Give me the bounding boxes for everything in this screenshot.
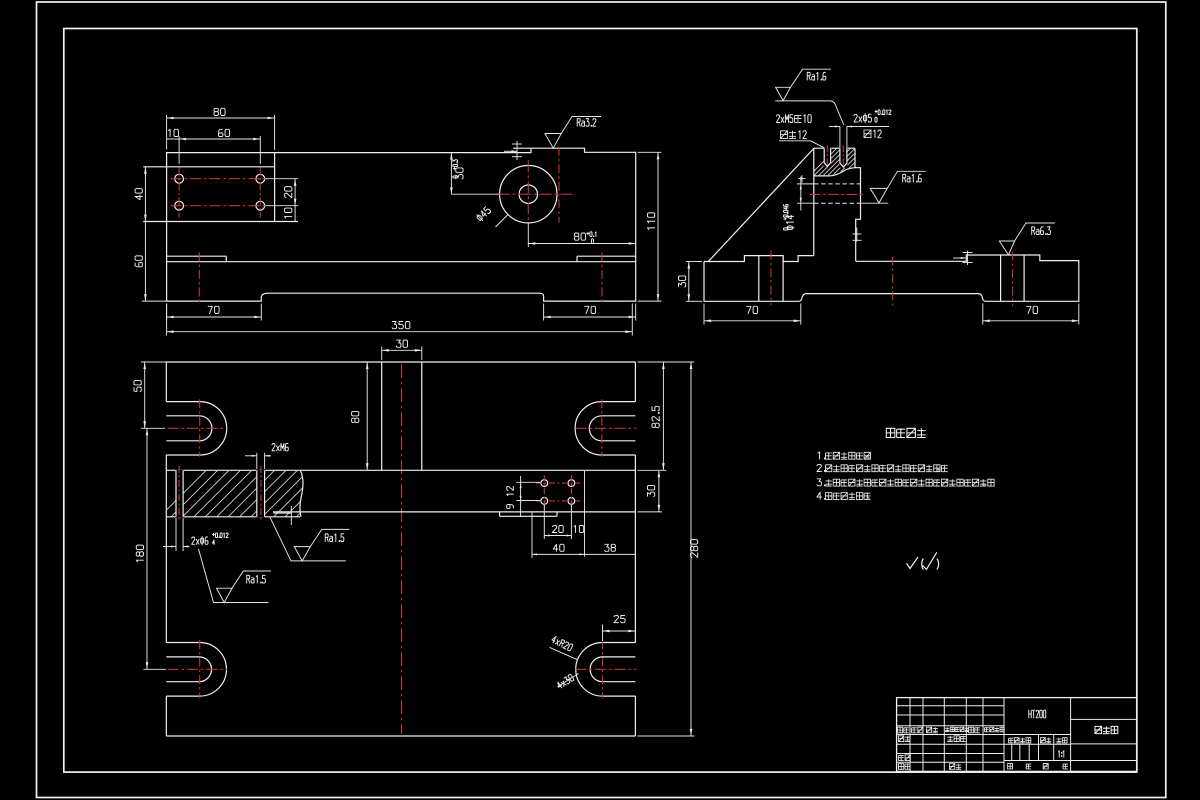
leader tick for phi6 bore surface [273,512,292,514]
top view: local section break curve [300,471,303,517]
surface finish Ra6.3 (base ledge) [999,223,1055,255]
dim 10 (lower hole to block bottom) [294,206,296,222]
top view: upper-right open slot [602,401,636,403]
dim phi14+0.046 (bore, hidden) [797,183,814,185]
front view: phi45 centerlines (red) [498,193,573,195]
surface finish Ra1.6 (bore) [870,171,926,203]
side view: M5 tapped hole [824,148,830,166]
front view: main outline of fixture body [167,148,531,301]
dim 30 (band width, right) [638,511,663,513]
label 2xM5 deep10 / hole deep12 with leader [777,115,793,123]
dim 80+0.1 (bore center to right edge) [527,223,529,247]
tech req line 1 [818,452,825,459]
dim 20 (hole row spacing, right of block) [265,178,298,180]
top view: upper-left open slot [166,401,200,403]
dims 40 and 38 [531,513,533,559]
dim 10 (left hole offset) [168,129,178,136]
label 2xM6 with dim [256,453,258,469]
dim 30 (column width, top) [381,347,383,361]
dims 20 and 10 (hole pattern cols) [543,505,545,540]
front view: left ledge step [225,256,227,262]
front view: 4 mounting holes in top-left block [175,174,184,183]
title block: left grid horizontals [897,705,1004,707]
dim 82.5 (top edge to band) [638,361,695,363]
title block: right column rows [1071,718,1137,720]
top view: hole pattern centerlines (red) [536,482,580,484]
front view: pad hole centerline (red) [558,147,560,223]
side view: phi5 pin hole [840,148,847,167]
front view: top-left block inner edge [143,166,274,168]
material HT200 [1029,710,1046,718]
dim 70 (bottom right) [543,304,545,321]
top view: lower-right slot centerlines (red) [602,640,604,698]
tech req line 4 [817,492,825,499]
front view: right ledge top [577,255,636,257]
top view: central axis centerline (red) [401,364,403,734]
title block outer rect [897,698,1137,772]
title block: left grid verticals [909,698,911,772]
front view: bore circle phi14 [519,185,537,203]
side view: M5 hole centerline (red) [826,145,828,168]
top view: 4x small hole pattern [541,480,548,487]
front view: base flange top edge [167,261,636,263]
side view: hidden phi14 bore lines (dashed) [814,183,861,185]
dim 30+0.3 (top edge to bore center) [450,153,452,195]
top view: lower-left slot centerlines (red) [199,640,201,698]
dim 25 (slot center to right edge) [602,625,604,642]
dim 60 (lower body height, left) [144,222,146,302]
surface finish Ra1.6 (boss top) [775,101,844,125]
side view: slot centerlines (red) [770,251,772,306]
top view: lower-left open slot [166,642,199,644]
dim 4 (column wall step) [856,228,858,242]
side view: right slot wall 2 [1023,255,1025,301]
label 4x30 with leader [558,674,579,687]
surface finish Ra1.5 (upper) [270,517,346,561]
extension of hidden line for Ra1.6 [861,202,889,204]
dim 70 (side view bottom right) [982,304,984,325]
side view: boss bottom (section edge) [814,175,827,177]
dim 60 (hole spacing) [178,136,180,164]
dim 110 (front view height) [638,151,662,153]
dim 350 (overall width) [166,304,168,336]
side view: boss top edge [814,147,855,149]
label 4xR20 with leader [550,647,578,659]
side view: center axis (red) [892,257,894,306]
side view: right slot wall [1000,255,1002,301]
front view: top-left block bottom edge [143,221,298,223]
front view: left base hole centerline (red) [198,253,200,306]
dim 4 (pad step) [516,141,518,160]
top view: cross plate band [166,469,635,471]
dim 70 (bottom left) [166,304,168,321]
tech req line 2 [817,465,825,472]
scale 1:1 [1059,751,1064,757]
top view: M6 tapped hole #1 walls [175,470,177,517]
title block: mid section lines [1004,734,1071,736]
front view: boss circle phi45 [500,166,557,223]
side view: left slot wall [758,256,760,302]
side view: section break curve [827,168,855,176]
dim 40 (block height, left) [144,167,146,222]
label 2x phi5 +0.012 deep 12 with dim lines [839,127,841,148]
title block: divider left/mid [1003,698,1005,772]
front view: left ledge top [167,255,227,257]
part name: fixture body (jia ju ti) [1095,726,1118,733]
title block: divider mid/right [1070,698,1072,772]
dim 30 (base height) [686,261,702,263]
side view: bore centerline (red) [810,193,864,195]
dim 80 (top of block) [166,115,168,150]
label 2x phi6 +0.012 with dim [175,518,177,551]
dims 12 and 9 (hole pattern rows) [516,481,541,483]
dim 80 (column length) [366,362,368,470]
top view: right edge segments [634,362,636,402]
dim 280 (top view overall height) [638,735,695,737]
side view: gusset rib diagonal [709,148,814,261]
dim 50 (top edge to slot center) [141,361,166,363]
front view: top-left block right edge [274,153,276,222]
side view: left slot wall 2 [782,256,784,302]
side view: base outline [704,255,1079,301]
top view: M6 tapped hole #2 walls [256,470,258,517]
dim 180 (slot center to slot center) [144,668,167,670]
front view: right ledge step [576,256,578,262]
front view: right base hole centerline (red) [601,253,603,306]
top view: upper-left slot centerlines (red) [199,399,201,457]
title: technical requirements (ji shu yao qiu) [886,428,925,437]
surface finish Ra1.5 (lower) [199,549,269,603]
top view: lower-right open slot [603,642,636,644]
top view: M6 hole 1 centerline (red) [178,466,180,522]
dim 70 (side view bottom left) [703,304,705,325]
general roughness mark: check (check) [907,557,919,569]
label phi45 with leader [496,215,509,228]
top view: central column edges [381,362,383,470]
top view: left edge segments [165,362,167,402]
top view: phi45 bore walls seen in plan [499,512,501,516]
tech req line 3 [817,479,825,486]
top view: upper-right slot centerlines (red) [601,399,603,457]
side view: phi5 hole centerline (red) [842,145,844,168]
top view: outline top and bottom edges [166,361,635,363]
top view: M6 hole 2 centerline (red) [260,466,262,522]
side view: column outline [813,148,815,255]
tick 4 (boss bottom to bore) [801,175,803,182]
surface finish Ra3.2 on pad [545,117,601,149]
side view: base top left steps [704,256,814,262]
dim 4 (right ledge step) [967,251,969,265]
title block texts [898,727,909,733]
front view: hole centerlines (red) [178,168,180,218]
